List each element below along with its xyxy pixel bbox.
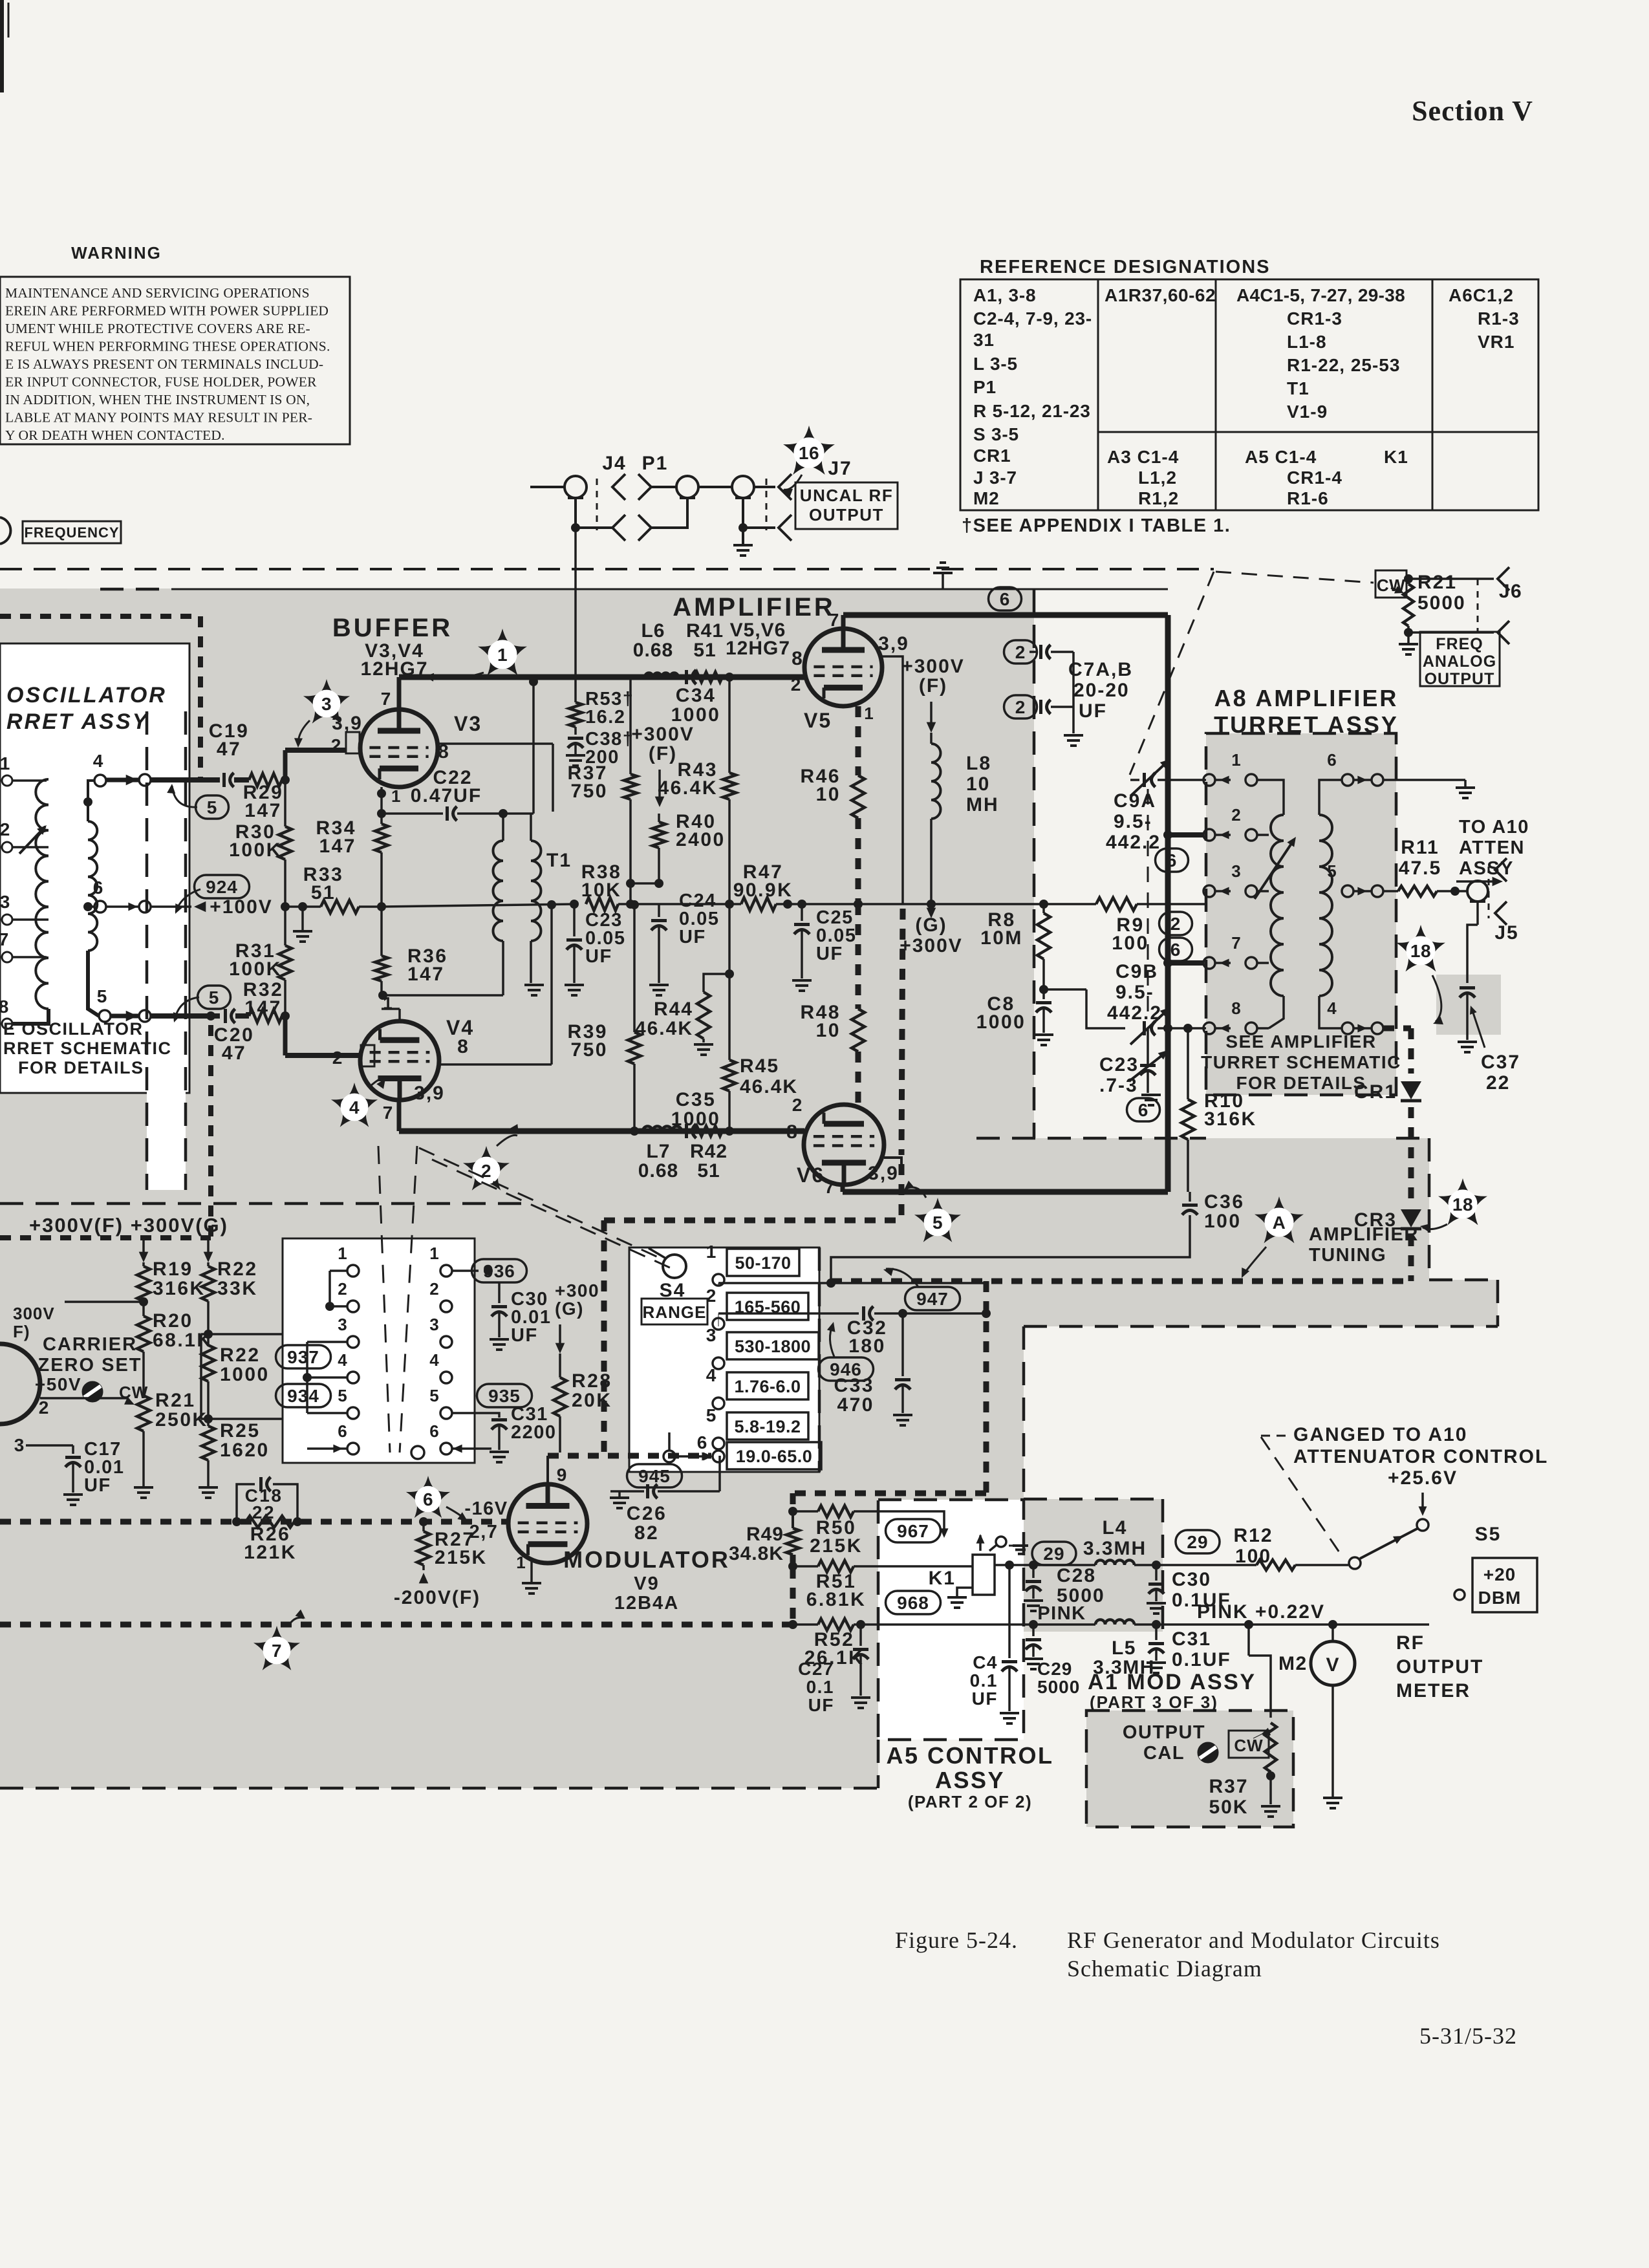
right notch top border <box>1429 1279 1498 1282</box>
wire C22 riser <box>532 682 535 814</box>
svg-text:-16V: -16V <box>464 1498 508 1519</box>
svg-text:6: 6 <box>1138 1100 1149 1120</box>
wire J4 feed <box>530 486 565 488</box>
inductor L4 <box>1095 1561 1134 1565</box>
resistor R32 <box>249 1010 282 1022</box>
svg-text:29: 29 <box>1187 1532 1208 1552</box>
resistor R48 <box>852 1009 865 1052</box>
leader oval 924 <box>176 889 200 912</box>
svg-text:WARNING: WARNING <box>71 243 162 263</box>
svg-text:16.2: 16.2 <box>585 707 625 728</box>
svg-text:A5 CONTROL: A5 CONTROL <box>887 1742 1054 1769</box>
junction R29 node <box>281 775 290 784</box>
svg-text:2: 2 <box>1231 805 1241 825</box>
inductor L7 <box>643 1127 682 1131</box>
arrow to A10 <box>1456 880 1499 883</box>
svg-text:+25.6V: +25.6V <box>1388 1467 1458 1489</box>
resistor R43 <box>728 677 731 773</box>
svg-text:R22: R22 <box>220 1345 261 1366</box>
svg-text:34.8K: 34.8K <box>729 1543 784 1564</box>
star 5 <box>914 1198 961 1242</box>
svg-text:924: 924 <box>206 877 238 897</box>
capacitor C7A <box>1039 645 1042 659</box>
svg-text:L 3-5: L 3-5 <box>973 354 1018 374</box>
svg-text:9.5-: 9.5- <box>1114 811 1152 832</box>
A8 box dashed border <box>1206 733 1396 1095</box>
svg-text:530-1800: 530-1800 <box>735 1337 811 1356</box>
svg-text:3: 3 <box>706 1325 717 1345</box>
ground A8 pin6 <box>1464 780 1467 788</box>
svg-text:A6C1,2: A6C1,2 <box>1449 285 1514 305</box>
resistor R34 <box>380 814 383 824</box>
svg-text:C2-4, 7-9, 23-: C2-4, 7-9, 23- <box>973 308 1092 329</box>
svg-text:P1: P1 <box>973 377 997 397</box>
star A <box>1255 1196 1304 1243</box>
tube V3 <box>360 709 438 787</box>
svg-text:S 3-5: S 3-5 <box>973 424 1019 444</box>
junction V3 cathode <box>377 789 386 798</box>
capacitor C34 <box>685 670 688 684</box>
right region border horizontal <box>976 1137 1206 1140</box>
resistor R37 <box>629 677 632 774</box>
white oscillator turret box <box>0 643 189 1093</box>
svg-text:TUNING: TUNING <box>1309 1245 1386 1266</box>
svg-text:7: 7 <box>1231 933 1241 953</box>
resistor R49 chain <box>788 1507 797 1516</box>
S4 wiper circle <box>663 1451 675 1462</box>
resistor R52 <box>818 1619 854 1630</box>
junction R47 right <box>783 900 792 909</box>
junction bus R43 <box>725 673 734 682</box>
leader star18 CR <box>1423 1224 1447 1229</box>
resistor R44 <box>704 974 729 992</box>
wire P1 to J7 <box>698 486 732 488</box>
svg-text:TURRET ASSY: TURRET ASSY <box>1214 711 1399 738</box>
svg-text:2: 2 <box>1170 914 1181 934</box>
A8 transformer right winding <box>1319 815 1332 996</box>
wire V3 cathode <box>380 787 383 814</box>
inductor L5 <box>1095 1620 1134 1625</box>
svg-text:FREQUENCY: FREQUENCY <box>24 524 119 541</box>
relay contact <box>996 1537 1006 1547</box>
arrow +300V(F) buffer <box>658 770 661 802</box>
capacitor C4 <box>1008 1565 1011 1658</box>
wire to output cal <box>1247 1625 1250 1656</box>
meter M2 <box>1311 1641 1355 1685</box>
svg-text:CR1: CR1 <box>973 446 1011 466</box>
leader star6 <box>446 1507 466 1520</box>
squaredash R48 upper <box>856 904 861 1009</box>
svg-text:180: 180 <box>848 1335 886 1357</box>
leader star5 <box>905 1187 926 1198</box>
star 16 <box>783 426 835 475</box>
border right of modulator area <box>1022 1326 1026 1499</box>
svg-text:20-20: 20-20 <box>1073 680 1130 701</box>
svg-text:ER INPUT CONNECTOR, FUSE H: ER INPUT CONNECTOR, FUSE HOLDER, POWER <box>5 374 317 390</box>
wire to L4 <box>1033 1564 1095 1566</box>
arrow -200V to R27 <box>419 1573 429 1583</box>
ground C26 <box>618 1491 621 1498</box>
capacitor C27 <box>859 1625 862 1646</box>
star 2 <box>463 1146 510 1191</box>
oval 967 <box>886 1519 941 1542</box>
wire V4 screen <box>439 1063 552 1066</box>
resistor R22b <box>202 1345 215 1381</box>
node line to R9 <box>858 903 1096 905</box>
svg-text:945: 945 <box>638 1466 671 1486</box>
svg-text:UF: UF <box>808 1695 834 1715</box>
star 18 CR <box>1438 1178 1487 1225</box>
svg-text:CR1: CR1 <box>1354 1081 1397 1103</box>
osc variable cap arrow <box>19 826 45 854</box>
svg-text:C4: C4 <box>973 1652 998 1672</box>
svg-text:R 5-12, 21-23: R 5-12, 21-23 <box>973 401 1091 421</box>
thick bus V5 plate <box>843 612 1168 618</box>
osc pin 3 circle <box>2 914 12 925</box>
RANGE box <box>641 1299 707 1324</box>
svg-text:A4C1-5, 7-27, 29-38: A4C1-5, 7-27, 29-38 <box>1236 285 1405 305</box>
thick bus right column <box>1165 615 1171 1035</box>
A4 fork dash right <box>400 1146 417 1453</box>
svg-text:147: 147 <box>244 800 282 821</box>
svg-text:C33: C33 <box>834 1375 874 1396</box>
svg-text:33K: 33K <box>217 1278 258 1299</box>
svg-text:AMPLIFIER: AMPLIFIER <box>673 593 835 621</box>
svg-text:10K: 10K <box>581 880 622 901</box>
svg-text:51: 51 <box>697 1160 720 1182</box>
svg-text:RRET SCHEMATIC: RRET SCHEMATIC <box>3 1039 172 1058</box>
svg-text:316K: 316K <box>1204 1108 1257 1130</box>
svg-text:A: A <box>1273 1213 1286 1233</box>
A8 pin6 ground wire <box>1383 779 1465 781</box>
osc wire pin5 <box>88 951 99 1016</box>
svg-text:3: 3 <box>1231 861 1241 881</box>
svg-text:1: 1 <box>864 704 874 723</box>
svg-text:C23: C23 <box>1099 1054 1139 1075</box>
svg-text:R37: R37 <box>1209 1776 1248 1797</box>
svg-text:3,9: 3,9 <box>414 1083 445 1104</box>
ground C30a <box>490 1338 509 1341</box>
diode CR1 <box>1401 1081 1421 1099</box>
svg-text:C26: C26 <box>627 1503 667 1524</box>
squaredash -16V bus <box>0 1519 508 1525</box>
squaredash R48 lower <box>856 1052 861 1105</box>
resistor R25 <box>207 1419 210 1426</box>
squaredash bus B branch <box>984 1281 989 1493</box>
squaredash V6 3-9 link <box>884 1158 901 1164</box>
wire C7A to riser <box>1051 651 1073 653</box>
svg-text:18: 18 <box>1410 941 1431 961</box>
gray region right notch <box>1429 1280 1498 1326</box>
tube V5 <box>804 629 882 706</box>
relay K1 coil box <box>973 1555 995 1595</box>
table column divider 3 <box>1432 279 1434 510</box>
leader oval5 upper <box>172 786 197 807</box>
leader C37 <box>1472 1009 1485 1048</box>
wire C9A row <box>1158 779 1206 781</box>
svg-text:AMPLIFIER: AMPLIFIER <box>1309 1224 1419 1245</box>
squaredash CR1-CR3 <box>1408 1107 1414 1202</box>
osc pin 7 circle <box>2 952 12 962</box>
svg-text:100: 100 <box>1235 1546 1271 1567</box>
svg-text:19.0-65.0: 19.0-65.0 <box>736 1447 813 1466</box>
junction R37/R40 tie <box>630 882 659 885</box>
S4 range boxes <box>727 1249 799 1276</box>
svg-text:OUTPUT: OUTPUT <box>1425 670 1495 688</box>
svg-text:82: 82 <box>634 1522 659 1544</box>
capacitor C18 loop <box>237 1484 255 1522</box>
tube V6 <box>804 1105 884 1185</box>
resistor R30 <box>284 780 286 826</box>
wire R37 to node <box>629 883 632 904</box>
osc winding left taps <box>12 779 47 782</box>
svg-text:5: 5 <box>207 797 218 817</box>
A4 right tie <box>452 1269 479 1272</box>
junction R19/R20 <box>139 1297 148 1306</box>
wire C20 to R32 <box>235 1013 249 1019</box>
svg-text:C36: C36 <box>1204 1191 1245 1213</box>
svg-text:1: 1 <box>0 753 10 773</box>
S4 wiper stem <box>668 1432 671 1451</box>
wire V5 screen 3-9 <box>882 656 903 904</box>
svg-text:46.4K: 46.4K <box>635 1018 693 1039</box>
svg-text:R1-6: R1-6 <box>1287 488 1329 508</box>
wire J7 drop <box>742 498 744 528</box>
wire pin4 to gap <box>106 778 139 783</box>
tube V9 <box>508 1484 587 1563</box>
svg-text:Schematic Diagram: Schematic Diagram <box>1067 1956 1262 1982</box>
connector chevron P1 row2 <box>638 515 651 541</box>
svg-text:V5: V5 <box>804 709 832 732</box>
squaredash CR3 to bus <box>1408 1235 1414 1281</box>
wire S4 pin1 row <box>718 1283 719 1286</box>
svg-text:6: 6 <box>423 1489 433 1509</box>
svg-text:4: 4 <box>349 1097 360 1118</box>
svg-text:147: 147 <box>319 836 356 857</box>
svg-text:UF: UF <box>816 944 843 964</box>
resistor R9 <box>1096 898 1137 911</box>
svg-text:MH: MH <box>966 794 999 815</box>
svg-text:R41: R41 <box>686 620 724 642</box>
connector P1 coax <box>676 476 698 498</box>
ground R44 <box>694 1043 713 1046</box>
svg-text:C34: C34 <box>676 685 717 706</box>
svg-text:121K: 121K <box>244 1542 297 1563</box>
svg-text:C7A,B: C7A,B <box>1068 659 1133 680</box>
ground R37 cal <box>1261 1805 1280 1808</box>
svg-text:+300V(F) +300V(G): +300V(F) +300V(G) <box>29 1214 228 1237</box>
svg-text:R12: R12 <box>1233 1525 1273 1546</box>
resistor R28 <box>559 1354 561 1377</box>
svg-text:R1-22, 25-53: R1-22, 25-53 <box>1287 355 1400 375</box>
wire C36 link <box>831 1215 1190 1281</box>
svg-text:A3 C1-4: A3 C1-4 <box>1107 447 1179 467</box>
wire V8 pin3 <box>26 1444 73 1447</box>
bottom-left gray right border <box>877 1740 880 1788</box>
svg-text:RANGE: RANGE <box>643 1302 707 1322</box>
svg-text:6: 6 <box>1000 589 1011 609</box>
capacitor C29 <box>1032 1625 1035 1636</box>
bottom-left gray border <box>0 1787 878 1790</box>
A1 mod box dashed border <box>1086 1711 1293 1827</box>
svg-text:3: 3 <box>14 1435 25 1455</box>
oval 935 <box>477 1384 532 1407</box>
osc pin 5 circle <box>99 1010 111 1022</box>
osc pin 4 circle <box>94 775 106 786</box>
oval 946 <box>819 1357 874 1381</box>
svg-text:4: 4 <box>93 751 104 771</box>
svg-text:REFUL WHEN PERFORMING THESE OP: REFUL WHEN PERFORMING THESE OPERATIONS. <box>5 339 330 354</box>
svg-text:ASSY: ASSY <box>935 1767 1005 1793</box>
svg-text:Section V: Section V <box>1412 95 1533 127</box>
svg-text:100K: 100K <box>229 839 282 861</box>
gray region A8 turret box <box>1206 733 1396 1095</box>
svg-text:5000: 5000 <box>1037 1677 1080 1697</box>
svg-text:L5: L5 <box>1112 1637 1136 1659</box>
svg-text:R22: R22 <box>217 1258 258 1280</box>
svg-text:100K: 100K <box>229 958 282 980</box>
wire J7 row2 <box>743 526 775 529</box>
svg-text:0.1UF: 0.1UF <box>1172 1649 1231 1670</box>
wire R51 to K1 <box>854 1565 973 1568</box>
capacitor C8 <box>1042 989 1045 999</box>
resistor R36 <box>380 907 383 956</box>
svg-text:2: 2 <box>792 1095 803 1115</box>
connector chevron J5 upper <box>1495 858 1507 881</box>
svg-text:215K: 215K <box>810 1535 863 1557</box>
squaredash pink bus <box>0 1622 793 1628</box>
oval 6 top <box>989 587 1022 610</box>
resistor R40 <box>658 814 660 822</box>
svg-text:BUFFER: BUFFER <box>332 614 453 642</box>
ground C31b <box>1147 1661 1166 1664</box>
resistor R41 <box>695 672 722 682</box>
oval 5 upper <box>196 795 229 819</box>
svg-text:EREIN ARE PERFORMED WITH POWER: EREIN ARE PERFORMED WITH POWER SUPPLIED <box>5 303 329 319</box>
svg-text:CW: CW <box>1234 1736 1263 1755</box>
wire +50V <box>40 1397 128 1399</box>
connector J5 coax <box>1467 881 1488 902</box>
svg-text:J 3-7: J 3-7 <box>973 468 1017 488</box>
svg-text:1: 1 <box>1231 750 1241 770</box>
wire V9 cathode gnd <box>530 1560 533 1583</box>
border H2 solid <box>171 589 1168 590</box>
svg-text:R19: R19 <box>153 1258 193 1280</box>
svg-text:9: 9 <box>557 1465 568 1485</box>
gray region right mass (amplifier tuning area) <box>1028 1138 1429 1326</box>
svg-text:10M: 10M <box>980 927 1023 949</box>
potentiometer R21 analog <box>1403 584 1414 626</box>
squaredash V5-V6 screen column <box>901 909 903 1155</box>
svg-text:PINK: PINK <box>1037 1603 1086 1624</box>
svg-text:7: 7 <box>829 610 840 630</box>
svg-text:C31: C31 <box>1172 1628 1211 1650</box>
wire J4 row2 <box>576 526 612 529</box>
ground M2 <box>1323 1797 1342 1799</box>
connector chevron J7 <box>779 474 792 500</box>
wire to J7 chevron <box>754 486 775 488</box>
svg-text:OSCILLATOR: OSCILLATOR <box>6 683 167 707</box>
leader star A <box>1243 1247 1266 1275</box>
svg-text:S5: S5 <box>1475 1524 1502 1545</box>
ganged dashed line to R21 <box>1216 572 1374 583</box>
svg-text:T1: T1 <box>1287 378 1309 398</box>
transformer T1 secondary <box>531 841 541 941</box>
frequency dial arc <box>0 517 10 544</box>
junction R32 node <box>281 1011 290 1021</box>
svg-text:V1-9: V1-9 <box>1287 402 1328 422</box>
dashed border left of cable gap <box>145 711 149 1190</box>
gray region bottom-left strip <box>0 1632 878 1788</box>
svg-text:8: 8 <box>457 1036 469 1057</box>
svg-text:6: 6 <box>1167 850 1178 870</box>
svg-text:V6: V6 <box>797 1163 824 1187</box>
oval 2 c7 upper <box>1004 640 1037 664</box>
right region border vertical <box>1033 589 1036 1138</box>
gray region L4/L5 strip <box>1024 1499 1163 1632</box>
connector chevron J6 lower <box>1498 621 1509 644</box>
svg-text:937: 937 <box>287 1347 319 1367</box>
resistor R11 <box>1398 886 1437 896</box>
connector chevron J4 row2 <box>612 515 625 541</box>
wire S4 pin2 row <box>718 1313 719 1326</box>
svg-text:R1,2: R1,2 <box>1138 488 1179 508</box>
star 4 <box>331 1083 378 1127</box>
svg-text:1: 1 <box>338 1244 347 1263</box>
svg-text:IN ADDITION, WHEN THE INST: IN ADDITION, WHEN THE INSTRUMENT IS ON, <box>5 392 310 407</box>
ganged dash C9A-C9B <box>1147 789 1149 1015</box>
osc pin 6 circle <box>94 901 106 913</box>
S5 arm <box>1360 1528 1418 1559</box>
wire C9B to A8 <box>1158 1027 1206 1030</box>
variable capacitor C23 turret <box>1147 1028 1149 1064</box>
wire V3 grid <box>285 748 346 753</box>
svg-text:29: 29 <box>1043 1544 1064 1564</box>
A4 pin6 right wire <box>452 1447 491 1450</box>
oval 6 c9a <box>1156 848 1189 872</box>
svg-text:P1: P1 <box>642 453 669 474</box>
white cable gap strip <box>147 711 186 1190</box>
svg-text:M2: M2 <box>973 488 1000 508</box>
svg-text:UF: UF <box>84 1475 111 1496</box>
svg-text:UNCAL RF: UNCAL RF <box>800 486 893 505</box>
svg-text:7: 7 <box>0 929 9 949</box>
svg-text:(G): (G) <box>555 1299 584 1319</box>
ground C31a <box>490 1451 509 1453</box>
A4 wafer hub <box>411 1446 424 1459</box>
svg-text:16: 16 <box>799 443 819 463</box>
svg-text:FOR DETAILS: FOR DETAILS <box>18 1058 144 1077</box>
CW box output cal <box>1229 1731 1269 1758</box>
S4 gang dash 2 <box>432 1160 673 1269</box>
label 8 wire V3 <box>438 742 553 745</box>
svg-text:K1: K1 <box>929 1568 956 1589</box>
svg-text:OUTPUT: OUTPUT <box>1123 1722 1205 1743</box>
node open circle pin6 <box>139 901 151 913</box>
A8 tuning arrow <box>1255 841 1293 899</box>
svg-text:100: 100 <box>1204 1211 1242 1232</box>
S4 rotor line <box>649 1248 666 1258</box>
svg-text:6: 6 <box>93 878 104 898</box>
svg-text:18: 18 <box>1452 1194 1473 1215</box>
svg-text:750: 750 <box>570 1039 608 1061</box>
svg-text:UF: UF <box>585 946 612 967</box>
svg-text:PINK +0.22V: PINK +0.22V <box>1197 1601 1325 1623</box>
gray region lower-left band (modulator area) <box>0 1326 1024 1632</box>
node open circle pin4 <box>139 774 151 786</box>
resistor R38 <box>586 898 618 911</box>
svg-text:442.2: 442.2 <box>1107 1002 1162 1024</box>
